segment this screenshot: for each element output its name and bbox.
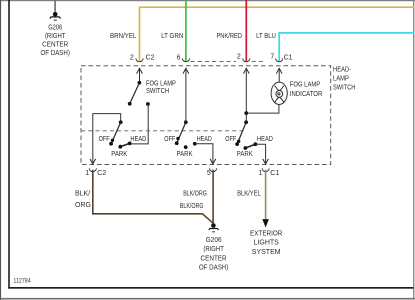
svg-text:HEAD: HEAD <box>197 136 212 143</box>
node G206 label (bottom) <box>199 237 228 272</box>
svg-text:SYSTEM: SYSTEM <box>252 249 281 256</box>
svg-text:LT GRN: LT GRN <box>161 33 183 40</box>
svg-text:LIGHTS: LIGHTS <box>254 239 280 246</box>
pole2 park contact <box>184 145 188 149</box>
svg-text:C2: C2 <box>146 54 155 61</box>
ground G206 (bottom) symbol <box>208 223 219 232</box>
svg-text:OF DASH): OF DASH) <box>41 50 70 57</box>
switch linkage dashed line <box>81 130 242 132</box>
svg-text:EXTERIOR: EXTERIOR <box>250 230 282 237</box>
wire BLK/ORG from pin1 C2 <box>93 170 213 224</box>
pole3 blade <box>237 122 246 144</box>
svg-text:BLK/ORG: BLK/ORG <box>183 190 207 197</box>
wire LT BLU <box>279 33 414 61</box>
wire LT BLU to indicator <box>278 68 280 82</box>
svg-text:G206: G206 <box>48 25 62 32</box>
connector row dashed line (C1) <box>191 61 237 63</box>
fog lamp switch contact <box>146 102 150 106</box>
head-lamp switch label <box>333 67 355 92</box>
pole1 pivot <box>119 120 123 124</box>
svg-text:C2: C2 <box>97 170 106 177</box>
svg-text:BLK/: BLK/ <box>75 190 90 197</box>
svg-text:LAMP: LAMP <box>333 75 349 82</box>
svg-text:OFF: OFF <box>99 136 110 143</box>
svg-text:BRN/YEL: BRN/YEL <box>110 33 137 40</box>
fog lamp switch blade <box>130 83 140 104</box>
pole1 blade <box>111 122 121 143</box>
svg-text:(RIGHT: (RIGHT <box>203 246 224 253</box>
pin 7 terminal cup (LT BLU) <box>276 58 283 61</box>
svg-text:BLK/ORG: BLK/ORG <box>180 203 204 210</box>
svg-text:112784: 112784 <box>13 277 31 284</box>
node junction indicator branch <box>244 111 248 115</box>
wire pole1 common to pin 1 C2 <box>93 114 121 164</box>
svg-text:1: 1 <box>258 170 262 177</box>
wire pole2 feed <box>185 68 187 122</box>
pole3 park-head jumper <box>245 144 255 148</box>
node G206 label (top-left) <box>41 25 70 58</box>
svg-text:INDICATOR: INDICATOR <box>290 91 323 98</box>
pole2 pivot <box>184 120 188 124</box>
wire BLK/ORG from pin5 <box>212 170 214 224</box>
svg-text:G206: G206 <box>206 237 222 244</box>
ground G206 (top-left) symbol <box>49 12 61 21</box>
wire pin2 C2 into box (arrow) <box>137 68 143 73</box>
pole3 pivot <box>244 120 248 124</box>
svg-text:HEAD: HEAD <box>130 136 146 143</box>
arrow to exterior lights system <box>262 219 269 227</box>
svg-text:C1: C1 <box>284 54 293 61</box>
pin 5 terminal cup <box>210 168 217 171</box>
svg-text:SWITCH: SWITCH <box>333 85 355 92</box>
pin 6 terminal cup (LT GRN) <box>182 58 189 61</box>
svg-text:HEAD-: HEAD- <box>333 67 352 74</box>
svg-text:FOG LAMP: FOG LAMP <box>146 80 176 87</box>
lamp U1 fog lamp indicator <box>271 82 287 104</box>
svg-text:7: 7 <box>270 54 274 61</box>
svg-text:PARK: PARK <box>111 151 127 158</box>
svg-text:2: 2 <box>237 54 241 61</box>
fog lamp indicator label <box>290 81 323 98</box>
fog lamp switch pivot <box>138 81 142 85</box>
svg-text:HEAD: HEAD <box>257 136 273 143</box>
svg-text:(RIGHT: (RIGHT <box>45 33 66 40</box>
wire fog contact to pole1 head contact <box>130 104 148 144</box>
svg-text:2: 2 <box>130 54 134 61</box>
svg-text:PARK: PARK <box>177 151 193 158</box>
svg-text:5: 5 <box>207 170 211 177</box>
wire indicator to pole3 feed <box>246 104 279 113</box>
svg-text:6: 6 <box>177 54 181 61</box>
pole2 blade <box>177 122 186 143</box>
svg-text:OF DASH): OF DASH) <box>199 265 228 272</box>
pole1 head contact <box>128 142 132 146</box>
pin 2 C2 terminal cup (BRN/YEL) <box>136 58 143 61</box>
wire pole2 head contact to pin 5 <box>195 144 213 164</box>
pole1 park-head jumper <box>120 143 129 146</box>
wire PNK/RED <box>245 0 247 61</box>
svg-text:BLK/YEL: BLK/YEL <box>237 190 261 197</box>
pole2 head contact <box>193 142 197 146</box>
svg-text:PARK: PARK <box>237 151 253 158</box>
wire BRN/YEL <box>140 7 415 61</box>
pole3 head contact <box>254 142 258 146</box>
pin 1 C1 terminal cup <box>262 168 269 171</box>
svg-text:ORG: ORG <box>75 202 91 209</box>
svg-text:CENTER: CENTER <box>201 255 227 262</box>
pin 1 C2 terminal cup (bottom) <box>89 168 96 171</box>
wire pole3 feed <box>245 68 247 122</box>
wire pin7 LT BLU into box (arrow) <box>276 68 282 73</box>
svg-text:LT BLU: LT BLU <box>256 33 276 40</box>
wire pole3 head contact to pin 1 C1 <box>255 144 265 163</box>
exterior lights system label <box>250 230 282 255</box>
svg-text:FOG LAMP: FOG LAMP <box>290 81 321 88</box>
wire pin6 into box (arrow) <box>183 68 189 73</box>
fog lamp switch label <box>146 80 176 95</box>
wire pin2 PNK/RED into box (arrow) <box>243 68 249 73</box>
wire fog switch feed <box>139 68 141 82</box>
svg-text:OFF: OFF <box>164 136 175 143</box>
head-lamp switch dashed box <box>81 66 331 165</box>
svg-text:CENTER: CENTER <box>42 42 68 49</box>
svg-text:SWITCH: SWITCH <box>146 88 169 95</box>
svg-text:C1: C1 <box>270 170 279 177</box>
svg-text:PNK/RED: PNK/RED <box>217 33 242 40</box>
svg-text:OFF: OFF <box>225 136 236 143</box>
svg-text:1: 1 <box>85 170 89 177</box>
wire BLK to G206 (top-left) <box>54 0 56 12</box>
wire LT GRN <box>185 0 187 61</box>
label BLK/ORG (left, two lines) <box>75 190 91 209</box>
pin 2 terminal cup (PNK/RED) <box>243 58 250 61</box>
wire BLK/YEL from pin1 C1 <box>265 170 267 220</box>
